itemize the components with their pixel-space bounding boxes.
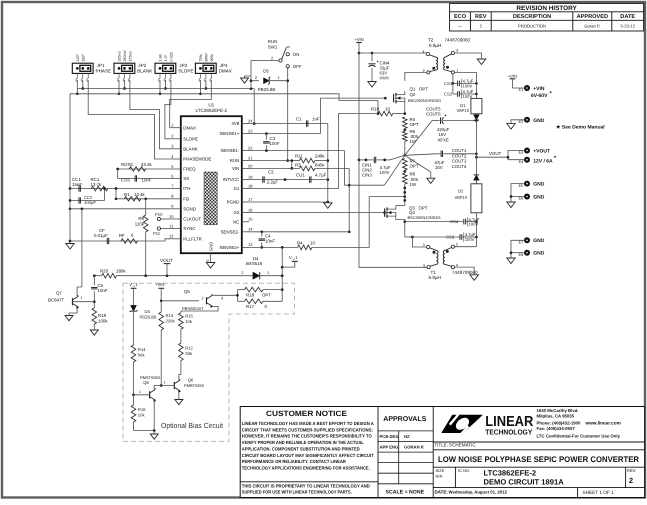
svg-text:R3: R3 xyxy=(295,162,301,167)
svg-text:56k: 56k xyxy=(138,352,146,357)
svg-text:RUN: RUN xyxy=(268,39,278,44)
node P11 xyxy=(153,227,161,236)
resistor R10 10 xyxy=(338,107,406,116)
svg-text:Q6: Q6 xyxy=(143,380,149,385)
svg-text:JP4: JP4 xyxy=(220,63,228,68)
svg-text:G1: G1 xyxy=(233,186,239,191)
svg-text:DEMO CIRCUIT 1891A: DEMO CIRCUIT 1891A xyxy=(484,477,565,486)
svg-text:E1: E1 xyxy=(519,88,524,92)
svg-text:R1: R1 xyxy=(124,192,130,197)
svg-text:E4: E4 xyxy=(519,160,524,164)
svg-text:www.linear.com: www.linear.com xyxy=(585,420,621,425)
svg-text:220k: 220k xyxy=(166,318,176,323)
node sense fan xyxy=(384,121,436,186)
svg-text:TITLE:: TITLE: xyxy=(435,443,448,448)
resistor R15 10k xyxy=(179,311,194,343)
wire T2 pin1 to bus xyxy=(455,71,477,73)
svg-text:E5: E5 xyxy=(519,184,524,188)
svg-text:FREQ: FREQ xyxy=(183,167,196,172)
svg-text:N/A: N/A xyxy=(436,473,443,478)
resistor R20 180k xyxy=(100,269,126,278)
resistor R1 12.4k xyxy=(124,192,146,201)
wire T2 pin 3 to ground xyxy=(455,53,482,59)
svg-text:18: 18 xyxy=(248,183,253,188)
date/sheet row xyxy=(435,488,615,498)
capacitor C1 1nF xyxy=(296,116,320,126)
terminal E2 GND xyxy=(519,117,545,124)
svg-text:U1: U1 xyxy=(208,102,214,107)
terminal E3 +VOUT xyxy=(519,148,550,155)
svg-text:Phone: (408)432-1900: Phone: (408)432-1900 xyxy=(537,420,582,425)
wire R5-R6 xyxy=(403,128,406,131)
capacitor COUT5 COUT6 220uF AFXE xyxy=(426,107,478,143)
svg-text:TECHNOLOGY APPLICATIONS ENGINE: TECHNOLOGY APPLICATIONS ENGINEERING FOR … xyxy=(242,465,370,470)
svg-text:10nF: 10nF xyxy=(142,177,152,182)
wire bus 2 (jumpers) xyxy=(70,94,379,115)
power flag +VIN (bias) xyxy=(155,282,164,302)
resistor R12 33k xyxy=(179,343,194,380)
svg-text:V: V xyxy=(129,282,132,287)
svg-text:D4: D4 xyxy=(253,256,259,261)
wire JP4 pins to bus xyxy=(199,80,207,95)
svg-text:DESCRIPTION: DESCRIPTION xyxy=(513,14,551,20)
svg-text:PGND: PGND xyxy=(227,200,240,205)
svg-text:OPT: OPT xyxy=(410,122,419,127)
svg-text:10nF: 10nF xyxy=(265,239,275,244)
label see demo manual xyxy=(556,124,605,130)
svg-text:3: 3 xyxy=(456,49,458,53)
wire CS2 row xyxy=(453,93,478,96)
terminal E4 12V/6A xyxy=(519,155,557,164)
svg-text:120°: 120° xyxy=(76,53,80,61)
svg-text:Q2: Q2 xyxy=(410,92,416,97)
power flag +VIN (E1) xyxy=(508,74,517,79)
ground (left rail) xyxy=(66,244,74,250)
wire VIN/R3 down leg xyxy=(348,168,351,233)
capacitor C5 10nF xyxy=(91,276,108,303)
diode D2 VBP10 xyxy=(455,157,482,247)
terminal E6 GND xyxy=(519,194,545,201)
svg-text:T2: T2 xyxy=(428,38,434,43)
diode D1 VBP10 xyxy=(457,98,482,157)
svg-text:2: 2 xyxy=(456,243,458,247)
wire VOUT node xyxy=(475,151,508,158)
svg-text:RF: RF xyxy=(119,233,125,238)
wire sense kelvin link xyxy=(345,184,385,186)
svg-text:V8P10: V8P10 xyxy=(455,195,468,200)
diode D4 BAS516 xyxy=(241,256,282,280)
wire Q6 base row xyxy=(154,381,174,386)
svg-text:SYNC: SYNC xyxy=(183,226,195,231)
svg-text:16V: 16V xyxy=(435,165,443,170)
wire JP4 to DMAX xyxy=(170,80,212,128)
wire R4 to sense node xyxy=(312,195,406,247)
wire R11-R3 left link xyxy=(290,159,293,169)
svg-text:DMAX: DMAX xyxy=(183,125,196,130)
ground (T2 pin3) xyxy=(477,59,486,65)
wire CC2 to ITH xyxy=(103,187,106,200)
power flag +VIN (top) xyxy=(354,37,363,43)
svg-text:SENSE1-: SENSE1- xyxy=(221,148,240,153)
capacitor CIN4 33uF xyxy=(368,53,389,82)
svg-text:GND: GND xyxy=(533,194,545,200)
svg-text:CS2: CS2 xyxy=(444,92,453,97)
wire PGND row xyxy=(249,201,328,203)
svg-text:GORAN P.: GORAN P. xyxy=(404,444,424,449)
wire Q7 base xyxy=(73,301,95,303)
svg-text:R10: R10 xyxy=(371,107,380,112)
svg-text:ROSC: ROSC xyxy=(121,162,134,167)
wire SENSE2- row xyxy=(249,230,349,233)
svg-text:RUN: RUN xyxy=(230,158,240,163)
svg-text:6V-60V: 6V-60V xyxy=(531,93,548,99)
wire CS4 row xyxy=(405,221,477,223)
power flag VOUT xyxy=(160,258,173,276)
wire T1 pin2 to bus xyxy=(455,246,477,248)
svg-text:10k: 10k xyxy=(185,319,193,324)
svg-text:20: 20 xyxy=(248,163,253,168)
svg-text:JP2: JP2 xyxy=(138,63,146,68)
resistor RC1 13.7k xyxy=(91,177,108,191)
svg-text:LINEAR TECHNOLOGY HAS MADE A B: LINEAR TECHNOLOGY HAS MADE A BEST EFFORT… xyxy=(242,421,375,426)
svg-text:100pF: 100pF xyxy=(84,200,96,205)
wire G1 row xyxy=(249,114,338,189)
resistor R6 .005 1W xyxy=(403,129,419,144)
svg-text:JP3: JP3 xyxy=(179,63,187,68)
resistor R9 110k xyxy=(135,199,148,276)
svg-text:CIRCUIT BOARD LAYOUT MAY SIGNI: CIRCUIT BOARD LAYOUT MAY SIGNIFICANTLY A… xyxy=(242,453,374,458)
svg-text:R20: R20 xyxy=(100,269,109,274)
svg-text:APPLICATION. COMPONENT SUBST: APPLICATION. COMPONENT SUBSTITUTION AND … xyxy=(242,446,361,451)
svg-text:VOUT: VOUT xyxy=(489,151,502,156)
svg-text:R15: R15 xyxy=(185,314,193,319)
resistor R7 OPT xyxy=(403,158,419,170)
address block xyxy=(537,408,621,439)
svg-text:+VIN: +VIN xyxy=(155,282,164,287)
svg-text:16: 16 xyxy=(248,207,253,212)
svg-text:+VOUT: +VOUT xyxy=(533,148,550,154)
svg-text:180k: 180k xyxy=(116,269,126,274)
svg-text:7448709060: 7448709060 xyxy=(445,38,471,43)
svg-text:0.01µF: 0.01µF xyxy=(94,233,108,238)
svg-text:SW1: SW1 xyxy=(268,44,278,49)
svg-text:REV: REV xyxy=(475,14,487,20)
capacitor CS2 4.7uF xyxy=(444,89,474,99)
svg-text:10nF: 10nF xyxy=(98,288,108,293)
svg-text:PCB DES.: PCB DES. xyxy=(380,434,400,439)
wire D1 bus top xyxy=(475,72,477,98)
svg-text:96%: 96% xyxy=(210,53,214,61)
jumper JP3 SLOPE xyxy=(155,52,194,81)
svg-text:14: 14 xyxy=(248,227,253,232)
wire SENSE2+ row xyxy=(249,246,298,249)
svg-text:P11: P11 xyxy=(153,231,161,236)
wire CIN row xyxy=(359,159,390,162)
svg-text:CUSTOMER NOTICE: CUSTOMER NOTICE xyxy=(266,409,347,418)
transistor Q1/Q2 BSC060N10NS3G xyxy=(394,87,442,106)
wire PLLFLTR row xyxy=(70,239,170,241)
svg-text:1.0*: 1.0* xyxy=(164,54,168,61)
transformer T2 7448709060 xyxy=(422,38,470,75)
svg-text:CU1: CU1 xyxy=(296,172,305,177)
capacitor CU1 4.7uF xyxy=(296,172,327,182)
svg-text:SCHEMATIC: SCHEMATIC xyxy=(449,443,476,448)
ground (SW1/D5) xyxy=(241,76,252,83)
transistor Q6 PMST5550 (left) xyxy=(134,375,161,431)
svg-text:FB: FB xyxy=(183,196,189,201)
svg-text:AFXE: AFXE xyxy=(438,137,449,142)
ground (E5/E6) xyxy=(507,202,515,208)
svg-text:SS: SS xyxy=(183,176,189,181)
wire SYNC row xyxy=(161,228,171,230)
svg-text:1nF: 1nF xyxy=(312,116,320,121)
svg-text:E6: E6 xyxy=(519,197,524,201)
title text xyxy=(435,443,640,464)
svg-text:13.7k: 13.7k xyxy=(91,182,103,187)
svg-text:D5: D5 xyxy=(263,69,269,74)
svg-text:6.8µH: 6.8µH xyxy=(429,275,441,280)
svg-text:2: 2 xyxy=(255,76,257,80)
wire flag to E1 xyxy=(513,79,524,88)
terminal E7 GND xyxy=(519,237,545,244)
svg-text:175ns: 175ns xyxy=(129,51,133,61)
wire JP3 to SLOPE xyxy=(165,80,171,139)
svg-text:249k: 249k xyxy=(315,154,325,159)
wire T1 pin1 xyxy=(412,237,426,247)
diode D5 PBZ6.8B xyxy=(251,69,288,92)
svg-text:PMBT5550: PMBT5550 xyxy=(184,383,205,388)
wire R20 row xyxy=(93,274,253,277)
svg-text:15nF: 15nF xyxy=(72,182,82,187)
svg-text:4: 4 xyxy=(422,50,424,54)
wire SENSE1+ to Q1 gate xyxy=(320,97,386,134)
svg-text:+VIN: +VIN xyxy=(508,74,517,79)
wire E5/E6 to ground xyxy=(510,184,524,202)
wire R7-R8 xyxy=(403,170,406,173)
svg-text:1: 1 xyxy=(139,390,141,394)
wire JP2 pins to bus xyxy=(118,80,126,95)
svg-text:PHASEMODE: PHASEMODE xyxy=(183,157,211,162)
resistor R5 OPT xyxy=(403,117,419,128)
svg-text:Optional Bias Circuit: Optional Bias Circuit xyxy=(161,421,223,430)
resistor R19 100k xyxy=(92,302,108,330)
resistor R3 845k xyxy=(249,162,349,170)
svg-text:PBZ6.8B: PBZ6.8B xyxy=(258,87,276,92)
svg-text:Fax: (408)434-0507: Fax: (408)434-0507 xyxy=(537,426,576,431)
svg-text:OPT: OPT xyxy=(419,87,428,92)
resistor R8 .005 1W xyxy=(403,172,419,187)
svg-text:BLANK: BLANK xyxy=(183,146,197,151)
transformer T1 7448709060 xyxy=(423,243,478,281)
wire bus A vertical xyxy=(326,124,329,204)
svg-text:V8P10: V8P10 xyxy=(457,108,470,113)
svg-text:845k: 845k xyxy=(315,162,325,167)
ground (Q7) xyxy=(65,316,73,321)
svg-text:JP1: JP1 xyxy=(97,63,105,68)
svg-text:APPROVED: APPROVED xyxy=(577,14,608,20)
ground (E2) xyxy=(507,124,515,130)
svg-text:R9: R9 xyxy=(138,216,144,221)
U1 exposed pad GND xyxy=(204,172,217,251)
IC U1 LTC3862EFE-2 xyxy=(181,102,242,253)
wire Q5 collector to R17/R18 xyxy=(211,294,218,296)
svg-text:33k: 33k xyxy=(185,351,193,356)
jumper JP2 BLANK xyxy=(114,49,153,81)
svg-text:OPT: OPT xyxy=(419,205,428,210)
svg-text:21: 21 xyxy=(248,155,253,160)
resistor ROSC 43.2k xyxy=(121,162,153,171)
svg-text:ON: ON xyxy=(293,52,300,57)
wire SGND row xyxy=(70,207,170,210)
svg-text:4.7µF: 4.7µF xyxy=(315,172,327,177)
capacitor CS1 4.7uF xyxy=(444,79,474,89)
svg-text:APPROVALS: APPROVALS xyxy=(383,416,426,423)
wire CLKOUT row xyxy=(161,218,171,220)
ground (E7/E8) xyxy=(507,258,515,264)
resistor R18 OPT xyxy=(238,287,283,297)
svg-text:Goran P.: Goran P. xyxy=(584,23,600,28)
ground (R19) xyxy=(90,330,98,335)
svg-text:23: 23 xyxy=(248,128,253,133)
svg-text:10: 10 xyxy=(169,214,174,219)
resistor R16 10k xyxy=(131,395,146,431)
wire bias bottom xyxy=(134,429,156,434)
wire SW1 OFF to RUN pin xyxy=(286,68,289,162)
wire +VIN rail xyxy=(358,43,427,268)
wire INTVCC row xyxy=(249,178,328,181)
svg-text:LOW NOISE POLYPHASE SEPIC POWE: LOW NOISE POLYPHASE SEPIC POWER CONVERTE… xyxy=(438,455,639,464)
svg-text:DMAX: DMAX xyxy=(219,68,232,73)
svg-text:PBZ6.8B: PBZ6.8B xyxy=(140,314,157,319)
svg-text:15: 15 xyxy=(248,217,253,222)
capacitor CIN1 CIN2 CIN3 4.7uF xyxy=(362,157,391,178)
svg-text:INTVCC: INTVCC xyxy=(223,177,239,182)
svg-text:C2: C2 xyxy=(268,169,274,174)
svg-text:CLKOUT: CLKOUT xyxy=(183,217,201,222)
svg-text:Q5: Q5 xyxy=(184,289,190,294)
diode D3 PBZ6.8B xyxy=(130,305,157,345)
svg-text:SENSE2-: SENSE2- xyxy=(221,229,240,234)
svg-text:SUPPLIED FOR USE WITH LINEAR T: SUPPLIED FOR USE WITH LINEAR TECHNOLOGY … xyxy=(242,490,352,495)
svg-text:325ns: 325ns xyxy=(118,51,122,61)
svg-text:3: 3 xyxy=(423,264,425,268)
svg-text:REVISION HISTORY: REVISION HISTORY xyxy=(516,5,577,12)
svg-text:R4: R4 xyxy=(297,240,303,245)
svg-text:PERFORMANCE OR RELIABILITY.: PERFORMANCE OR RELIABILITY. CONTACT LINE… xyxy=(242,459,347,464)
svg-text:+VIN: +VIN xyxy=(354,37,363,42)
svg-text:12.4k: 12.4k xyxy=(134,192,146,197)
svg-text:6.8µH: 6.8µH xyxy=(429,43,441,48)
revision history table xyxy=(450,3,644,31)
resistor R11 249k xyxy=(292,154,328,163)
svg-text:1: 1 xyxy=(278,76,280,80)
svg-text:100V: 100V xyxy=(463,83,473,88)
ground (T1) xyxy=(470,275,479,281)
svg-text:1.66: 1.66 xyxy=(159,54,163,61)
svg-text:1W: 1W xyxy=(410,182,417,187)
wire CS3 row xyxy=(405,236,477,239)
svg-text:★ See Demo Manual: ★ See Demo Manual xyxy=(556,124,605,130)
svg-text:NC: NC xyxy=(233,219,239,224)
svg-text:1: 1 xyxy=(267,271,269,275)
capacitor CS4 4.7uF xyxy=(450,217,480,227)
wire ITH-FB link xyxy=(115,187,118,199)
svg-text:DATE: DATE xyxy=(620,14,635,20)
wire SW1 common to junction xyxy=(250,61,279,91)
wire RUN row xyxy=(249,160,292,162)
wire CC2 row xyxy=(70,200,105,202)
wire G2 to Q3 gate xyxy=(249,211,386,214)
wire R6 to node xyxy=(403,141,406,156)
svg-text:E3: E3 xyxy=(519,151,524,155)
svg-text:Q7: Q7 xyxy=(56,291,62,296)
jumper JP4 DMAX xyxy=(195,52,231,81)
capacitor C3 10nF xyxy=(263,134,280,151)
power flag Vu1 (top) xyxy=(282,255,298,267)
svg-text:1: 1 xyxy=(423,243,425,247)
svg-text:3V8: 3V8 xyxy=(231,121,239,126)
wire FREQ row xyxy=(116,168,170,171)
svg-text:HOWEVER, IT REMAINS THE CUSTOM: HOWEVER, IT REMAINS THE CUSTOMER'S RESPO… xyxy=(242,434,372,439)
switch SW1 RUN xyxy=(268,39,302,69)
wire ITH row xyxy=(70,188,170,190)
wire FB row xyxy=(115,197,171,200)
svg-text:OPT: OPT xyxy=(410,164,419,169)
svg-text:C1: C1 xyxy=(296,116,302,121)
wire SS row xyxy=(118,178,171,180)
svg-text:GND: GND xyxy=(209,242,214,251)
capacitor CF 0.01uF xyxy=(94,228,109,244)
svg-text:SCALE = NONE: SCALE = NONE xyxy=(386,489,425,495)
wire VOUT to E3/E4 xyxy=(507,151,524,160)
svg-text:19: 19 xyxy=(248,174,253,179)
svg-text:REV.: REV. xyxy=(627,468,636,473)
transistor Q5 PBSS9110T xyxy=(182,289,223,311)
wire CS1-CS2 link xyxy=(452,83,454,94)
svg-text:CS1: CS1 xyxy=(444,81,453,86)
svg-text:Milpitas, CA 95035: Milpitas, CA 95035 xyxy=(537,414,575,419)
svg-text:BLANK: BLANK xyxy=(137,68,153,73)
svg-text:3: 3 xyxy=(221,296,223,300)
wire JP2 to BLANK xyxy=(130,80,170,149)
svg-text:12: 12 xyxy=(169,234,174,239)
wire Q1 source to chain xyxy=(404,105,406,114)
svg-text:2: 2 xyxy=(202,296,204,300)
svg-text:COUT4: COUT4 xyxy=(452,164,467,169)
title block frame xyxy=(240,407,644,498)
resistor R14 56k xyxy=(131,345,146,396)
svg-text:PBSS9110T: PBSS9110T xyxy=(182,306,204,311)
svg-text:VERIFY PROPER AND RELIABLE OPE: VERIFY PROPER AND RELIABLE OPERATION IN … xyxy=(242,440,364,445)
transistor Q6 PMBT5550 (right) xyxy=(174,378,204,400)
ground (sense fan) xyxy=(427,178,435,183)
svg-text:GND: GND xyxy=(533,251,545,257)
svg-text:BSC060N10NS3G: BSC060N10NS3G xyxy=(408,98,441,103)
wire JP1 to PHASEMODE xyxy=(88,80,170,159)
terminal E1 +VIN xyxy=(519,85,553,99)
svg-text:22: 22 xyxy=(248,145,253,150)
resistor R17 0 xyxy=(238,299,283,309)
ground (bus A) xyxy=(324,203,333,209)
svg-text:BSC060N10NS3G: BSC060N10NS3G xyxy=(408,215,441,220)
svg-text:180°: 180° xyxy=(81,53,85,61)
wire Q7 collector riser xyxy=(81,209,83,287)
power flag Vu1 (bias) xyxy=(129,282,138,305)
wire E2 to ground xyxy=(511,120,524,124)
svg-text:260ns*: 260ns* xyxy=(123,49,127,61)
capacitor C4 10nF xyxy=(259,232,276,249)
wire R8 to Q3 xyxy=(403,184,406,206)
